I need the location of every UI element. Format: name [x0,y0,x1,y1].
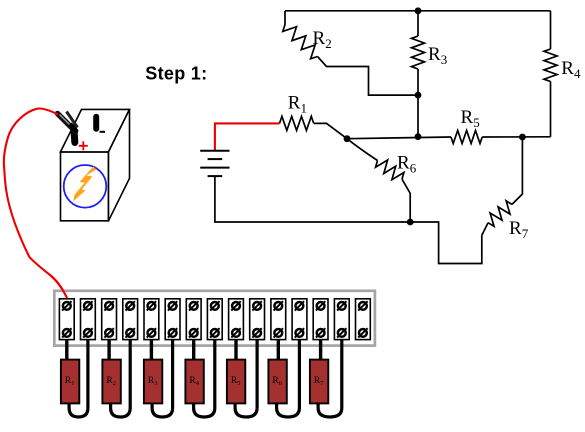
alligator clip [58,114,76,132]
resistor R1 (physical) body [61,360,79,404]
wire R2 branch left drop [284,11,286,25]
screw terminal 9b [232,329,240,337]
node: top R3 junction [415,7,422,14]
screw terminal 13b [317,329,325,337]
resistor R6 (physical) body [268,360,286,404]
red test lead wire [4,108,67,298]
resistor R5 [451,131,482,144]
terminal cell 13 [313,299,328,340]
svg-text:R5: R5 [461,107,480,130]
svg-text:R4: R4 [561,58,581,81]
screw terminal 3b [105,329,113,337]
terminal cell 15 [356,299,371,340]
screw terminal 10a [253,302,261,310]
resistor R7 (physical) lead wires [319,340,322,361]
screw terminal 7b [190,329,198,337]
minus sign [100,131,106,133]
red test lead wire tail over strip [50,275,67,298]
node: R5/R7 junction [519,134,526,141]
node: R3 bottom junction [415,133,422,140]
resistor R3 (physical) body [144,360,162,404]
screw terminal 11b [274,329,282,337]
svg-text:R1: R1 [288,93,307,116]
screw terminal 4b [126,329,134,337]
screw terminal 15b [359,329,367,337]
resistor R3 [417,11,419,36]
terminal cell 8 [207,299,222,340]
screw terminal 2b [84,329,92,337]
screw terminal 6a [169,302,177,310]
resistor R6 [347,139,378,161]
svg-text:R7: R7 [509,218,529,241]
screw terminal 8a [211,302,219,310]
wire top bus [285,10,551,12]
terminal cell 4 [123,299,138,340]
resistor R2 (physical) body [102,360,120,404]
plus sign [79,141,88,150]
lightning bolt [73,166,96,201]
svg-text:R6: R6 [397,153,417,176]
terminal cell 1 [59,299,74,340]
screw terminal 4a [126,302,134,310]
svg-text:Step 1:: Step 1: [145,64,207,84]
red wire from battery + to R1 [215,123,280,150]
screw terminal 13a [317,302,325,310]
screw terminal 15a [359,302,367,310]
terminal cell 6 [165,299,180,340]
resistor R7 (physical) body [310,360,328,404]
terminal cell 2 [81,299,96,340]
screw terminal 12a [296,302,304,310]
battery terminal negative [93,114,99,132]
resistor R5 (physical) lead wires [234,340,237,361]
terminal cell 5 [144,299,159,340]
screw terminal 11a [274,302,282,310]
resistor R7 [482,223,488,236]
screw terminal 12b [296,329,304,337]
terminal cell 11 [271,299,286,340]
screw terminal 5b [148,329,156,337]
resistor R4 [550,11,552,49]
resistor R4 (physical) body [185,360,203,404]
wire middle bus with R5 [347,137,451,139]
screw terminal 2a [84,302,92,310]
terminal cell 7 [186,299,201,340]
screw terminal 7a [190,302,198,310]
resistor R2 (physical) lead wires [107,340,110,361]
battery terminal positive [70,126,78,146]
wire R2 to R3 bottom node [318,57,419,96]
screw terminal 3a [105,302,113,310]
resistor R1 [280,116,314,130]
resistor R1 (physical) lead wires [65,340,68,361]
screw terminal 6b [169,329,177,337]
resistor R5 (physical) body [227,360,245,404]
screw terminal 14a [338,302,346,310]
terminal cell 9 [229,299,244,340]
resistor R2 [283,25,318,59]
screw terminal 10b [253,329,261,337]
screw terminal 9a [232,302,240,310]
terminal strip body [54,291,375,346]
terminal cell 3 [102,299,117,340]
terminal cell 10 [250,299,265,340]
node: R1/R6 junction [344,135,351,142]
node: R2/R3 junction [415,92,422,99]
battery logo circle [64,165,107,208]
resistor R4 (physical) lead wires [192,340,195,361]
screw terminal 1b [63,329,71,337]
terminal cell 14 [334,299,349,340]
terminal cell 12 [292,299,307,340]
node: R6 bottom junction [407,219,414,226]
battery illustration: box [61,152,109,221]
screw terminal 1a [63,302,71,310]
resistor R6 (physical) lead wires [277,340,280,361]
wire bottom bus [215,176,482,263]
svg-text:R3: R3 [428,44,447,67]
battery symbol [200,150,229,152]
screw terminal 8b [211,329,219,337]
svg-text:R2: R2 [313,28,332,51]
screw terminal 14b [338,329,346,337]
screw terminal 5a [148,302,156,310]
resistor R3 (physical) lead wires [150,340,153,361]
